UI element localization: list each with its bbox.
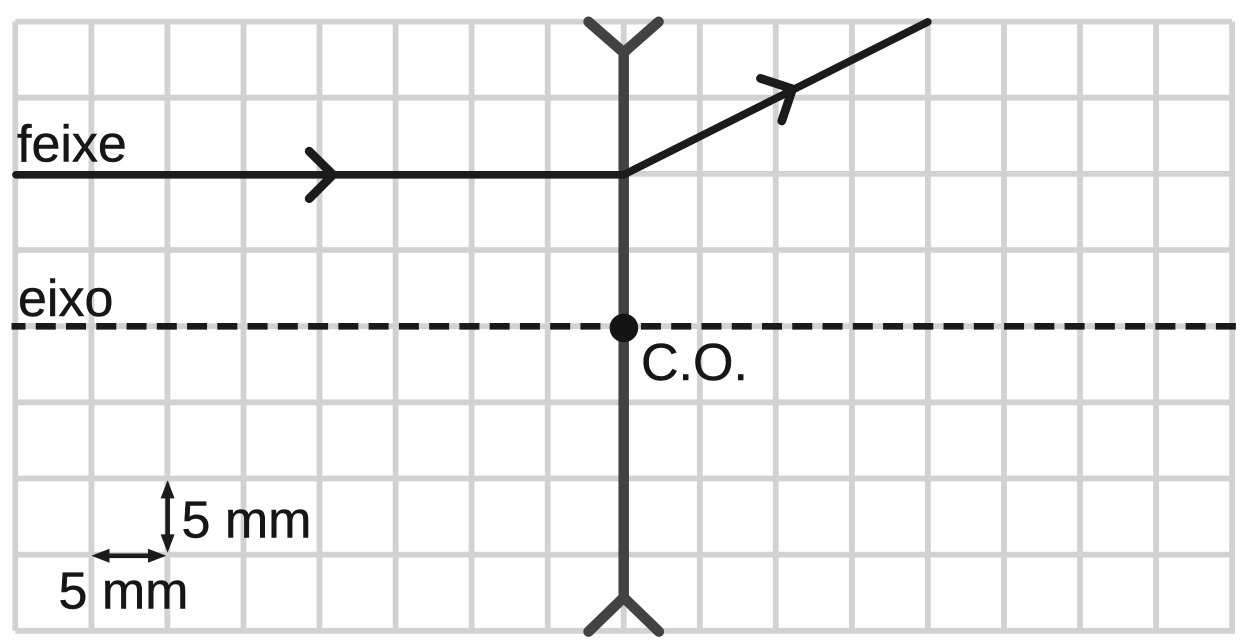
optical centre dot C.O. xyxy=(610,314,639,343)
lens body line xyxy=(618,53,629,598)
arrowhead on refracted ray xyxy=(761,78,793,121)
svg-text:C.O.: C.O. xyxy=(641,334,748,392)
lens bottom Y arrowhead xyxy=(589,598,659,632)
svg-text:5 mm: 5 mm xyxy=(59,563,189,621)
vertical 5 mm scale arrow xyxy=(161,480,175,552)
horizontal 5 mm scale arrow xyxy=(91,549,166,563)
arrowhead on incident ray xyxy=(309,151,333,198)
svg-text:feixe: feixe xyxy=(17,116,127,174)
axis (dashed optical axis "eixo") xyxy=(12,323,1237,330)
refracted ray xyxy=(624,22,928,175)
incident ray (feixe) xyxy=(16,171,624,179)
svg-text:eixo: eixo xyxy=(18,270,113,328)
lens L1 (diverging lens symbol, vertical line with outward Y arrowheads) xyxy=(589,22,659,632)
svg-text:5 mm: 5 mm xyxy=(182,492,312,550)
lens top Y arrowhead xyxy=(589,22,659,53)
